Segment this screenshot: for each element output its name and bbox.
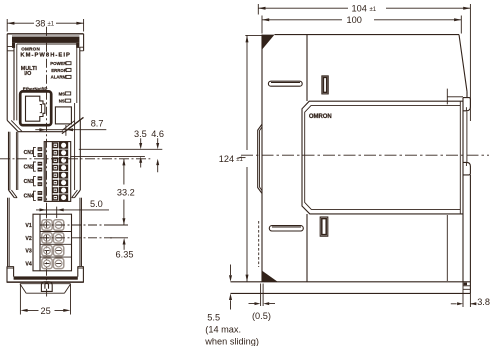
- module bottom line: [231, 281, 471, 283]
- front view vertical centerline: [46, 27, 48, 282]
- mid transition left diagonals: [9, 190, 15, 198]
- svg-text:±1: ±1: [48, 22, 55, 28]
- top bezel line: [12, 35, 79, 37]
- lower horizontal vent slot: [269, 226, 303, 231]
- side outline front edge: [261, 35, 263, 282]
- svg-text:CN1: CN1: [24, 150, 34, 156]
- V terminal block screws row1: [42, 220, 64, 269]
- dimension 38±1 width, extension lines: [7, 19, 83, 32]
- dimension 124±1 vertical line: [246, 35, 248, 282]
- V terminal block outer rect: [33, 214, 72, 271]
- CN terminal block screw slot ticks: [54, 145, 56, 199]
- label panel inner outline: [305, 106, 461, 210]
- svg-text:CN4: CN4: [24, 194, 34, 200]
- svg-text:±1: ±1: [370, 7, 377, 13]
- right mid walls: [79, 120, 81, 190]
- dimension 104±1 line: [258, 7, 470, 9]
- svg-text:V4: V4: [25, 261, 31, 267]
- svg-text:33.2: 33.2: [117, 188, 135, 198]
- CN terminal block dark pin cells column: [59, 142, 68, 202]
- dimension 124 leader tick: [239, 157, 246, 159]
- FRONT-DETAILS: [7, 142, 84, 316]
- DIN latch trapezoid: [20, 284, 71, 294]
- dimension 104±1 extension lines: [258, 4, 470, 121]
- side outline back edges: [462, 98, 464, 282]
- CN terminal block inner strip lines: [46, 142, 53, 202]
- front/body boundary vertical: [306, 35, 308, 282]
- right inner wall: [79, 47, 81, 120]
- V terminal block row dividers: [40, 232, 72, 258]
- BETWEEN-DIMS: [0, 118, 164, 259]
- address switch box: [55, 107, 71, 124]
- DIN rail edge lines: [446, 89, 448, 281]
- svg-text:NS: NS: [59, 98, 65, 103]
- lower vertical vent slot: [320, 217, 328, 236]
- upper horizontal vent slot: [268, 81, 302, 86]
- dimension 3.5 arrows and ticks: [140, 138, 142, 167]
- leader line L1 from CN block: [79, 148, 163, 150]
- cavity floor line: [18, 131, 63, 133]
- svg-text:CN3: CN3: [24, 179, 34, 185]
- bottom cap bottom edge: [7, 281, 84, 283]
- dimension 25 extension lines: [20, 285, 70, 315]
- label panel outer outline: [302, 101, 463, 214]
- DIN latch tab: [41, 282, 52, 292]
- svg-text:POWER: POWER: [50, 61, 67, 66]
- slid position bottom line: [231, 292, 471, 294]
- svg-text:100: 100: [347, 15, 362, 25]
- front outline: left outer wall upper: [6, 34, 8, 121]
- svg-text:3.8: 3.8: [477, 297, 490, 307]
- svg-text:4.6: 4.6: [151, 129, 164, 139]
- dimension (0.5) arrows: [249, 303, 276, 305]
- svg-text:(0.5): (0.5): [252, 311, 271, 321]
- svg-text:3.5: 3.5: [134, 129, 147, 139]
- FRONT-VIEW-START: [7, 19, 83, 297]
- svg-text:ALARM: ALARM: [51, 75, 67, 80]
- dimension 8.7 extension tick: [65, 125, 67, 136]
- dimension 8.7 line: [35, 129, 106, 131]
- DIN latch tab slot: [45, 283, 49, 289]
- inner face top line: [17, 43, 77, 45]
- lower left walls: [7, 198, 9, 267]
- DIN hook upper: [463, 98, 470, 111]
- bottom cap left ear: [7, 266, 14, 268]
- svg-text:6.35: 6.35: [116, 250, 134, 260]
- V2 row leader chain line: [40, 237, 112, 239]
- right chamfer diagonals: [62, 117, 84, 133]
- dimension 104 arrows: [258, 7, 265, 10]
- left chamfer diagonals: [7, 120, 18, 131]
- dimension (0.5) extension lines: [261, 284, 264, 307]
- mid transition right diagonals: [75, 190, 81, 198]
- CN terminal block screw slot squares: [53, 143, 58, 200]
- svg-text:(14 max.: (14 max.: [205, 325, 241, 335]
- front outline: top cap: [7, 33, 83, 35]
- svg-text:KM-PW8H-EIP: KM-PW8H-EIP: [20, 52, 71, 58]
- dimension 38 left arrow: [7, 22, 14, 25]
- right chamfer hatch ticks: [65, 118, 84, 132]
- leader line L2 from CN block: [71, 155, 145, 157]
- RJ45 inner step detail: [40, 105, 42, 113]
- svg-text:V2: V2: [25, 236, 31, 242]
- horizontal centerline of side view: [241, 154, 489, 156]
- dimension 38 right arrow: [76, 22, 83, 25]
- dimension 5.5 vertical line and arrows: [230, 265, 232, 310]
- bottom bezel thick dark bar: [14, 276, 78, 279]
- dimension 6.35 arrow and tail: [123, 244, 125, 250]
- side outline top edge: [275, 34, 460, 36]
- V terminal screw slots: [45, 225, 62, 263]
- svg-text:V3: V3: [25, 249, 31, 255]
- left ear notch: [7, 47, 14, 51]
- back foot outline: [463, 282, 470, 307]
- svg-text:OMRON: OMRON: [21, 46, 40, 51]
- V terminal screw circles: [44, 222, 62, 267]
- svg-text:5.5: 5.5: [207, 313, 220, 323]
- top bezel end tabs: [12, 43, 15, 48]
- dimension 100 arrows: [262, 18, 269, 21]
- dimension 124±1 extension line top: [245, 34, 261, 36]
- front outline: right outer wall top: [83, 34, 85, 51]
- CN terminal block cell dividers: [59, 149, 68, 194]
- dimension 4.6 arrows and ticks: [157, 138, 159, 172]
- svg-text:V1: V1: [25, 223, 31, 229]
- chain line through CN row: [0, 158, 150, 160]
- dimension 5.0 arrows: [40, 208, 47, 211]
- svg-text:25: 25: [41, 306, 51, 316]
- svg-text:when sliding): when sliding): [204, 337, 259, 346]
- dimension 25 arrows: [20, 309, 27, 312]
- dimension 33.2 vertical line: [123, 159, 125, 225]
- dimension 3.8 arrows: [451, 303, 477, 305]
- SIDE-VIEW-START: [204, 4, 490, 346]
- bottom cap right ear: [78, 266, 84, 268]
- svg-text:CN2: CN2: [24, 164, 34, 170]
- upper vertical vent slot: [322, 76, 328, 94]
- V terminal block divider strip: [39, 214, 41, 271]
- dimension 5.0 line: [36, 209, 109, 211]
- dimension 33.2 arrows: [122, 159, 125, 166]
- terminal cover bulge: [258, 124, 262, 193]
- CN terminal block pin circles: [61, 143, 66, 200]
- svg-text:8.7: 8.7: [91, 118, 104, 128]
- left mid walls: [8, 132, 10, 190]
- left inner wall: [13, 47, 15, 121]
- dimension 100 line: [262, 19, 461, 21]
- CN terminal block outer rect: [44, 142, 70, 202]
- bottom-left chamfer dark wedge: [262, 271, 277, 282]
- dimension 8.7 arrows: [39, 128, 46, 131]
- RJ45 jack outer thick frame: [20, 91, 51, 125]
- svg-text:104: 104: [352, 4, 367, 14]
- dimension 124 arrows: [246, 35, 249, 42]
- label panel right cap line: [459, 101, 461, 214]
- dimension 25 line: [27, 309, 65, 311]
- right ear notch: [80, 47, 84, 51]
- V1 row leader chain line: [40, 224, 112, 226]
- top bezel thick dark bar: [12, 37, 79, 43]
- svg-text:5.0: 5.0: [90, 199, 103, 209]
- svg-text:38: 38: [35, 19, 45, 29]
- RJ45 jack inner profile: [26, 96, 45, 121]
- side outline back top chamfer: [459, 35, 467, 98]
- inner face side lines: [17, 44, 77, 120]
- svg-text:OMRON: OMRON: [309, 114, 332, 120]
- dimension 5.0 extension ticks: [47, 207, 57, 218]
- lower right walls: [80, 198, 82, 267]
- bulge hidden line below: [258, 221, 260, 267]
- svg-text:MS: MS: [59, 91, 66, 96]
- DIN hook lower: [463, 162, 470, 175]
- side outline top-left chamfer dark wedge: [262, 35, 275, 50]
- svg-text:ERROR: ERROR: [51, 68, 67, 73]
- dimension 38±1 line: [7, 22, 83, 24]
- dimension 100 extension lines: [262, 16, 461, 34]
- svg-text:124: 124: [219, 154, 234, 164]
- svg-text:I/O: I/O: [24, 71, 31, 77]
